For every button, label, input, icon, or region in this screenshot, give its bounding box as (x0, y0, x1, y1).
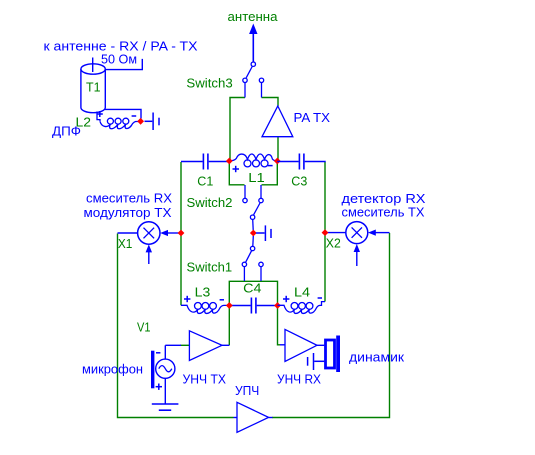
V1 plus mark (156, 384, 162, 390)
svg-text:L2: L2 (76, 114, 92, 129)
svg-text:динамик: динамик (349, 349, 404, 364)
wire T1 secondary to junction (105, 109, 141, 118)
svg-text:микрофон: микрофон (82, 361, 143, 376)
inductor L3 (181, 303, 229, 314)
node dot L3-C4 (226, 302, 233, 309)
svg-text:T1: T1 (86, 80, 101, 95)
wire 50 Ohm port to T1 (105, 59, 142, 70)
wire bottom right from УПЧ output up to X2 (272, 233, 390, 418)
node dot C4-L4 (274, 302, 281, 309)
svg-text:L3: L3 (195, 284, 211, 299)
L4 plus mark (283, 296, 289, 302)
svg-text:антенна: антенна (228, 9, 279, 24)
node dot C1-L1 (226, 158, 233, 165)
L4 minus mark (318, 297, 322, 299)
wire Switch3 right to PA TX output (262, 98, 279, 107)
wire Switch1 bottom rail with ends to L3/C4 nodes (229, 281, 277, 305)
L1 plus mark (233, 166, 240, 172)
mixer X2 (346, 222, 368, 244)
svg-text:50 Ом: 50 Ом (101, 52, 137, 67)
svg-text:L1: L1 (248, 170, 264, 185)
svg-text:C3: C3 (291, 173, 307, 188)
svg-text:модулятор TX: модулятор TX (84, 205, 172, 220)
capacitor stub near L2 (145, 113, 160, 131)
svg-text:X1: X1 (118, 236, 132, 251)
switch Switch2 (243, 185, 263, 230)
node dot switch common (250, 230, 257, 237)
inductor L1 (229, 154, 277, 167)
L1 minus mark (268, 165, 273, 167)
microphone electret plate (151, 351, 154, 389)
L2 minus mark (132, 115, 137, 117)
svg-text:X2: X2 (326, 235, 341, 250)
wire PA TX output base to L1 right node (277, 137, 279, 161)
ground below V1 (152, 404, 179, 410)
svg-text:к антенне - RX / PA - TX: к антенне - RX / PA - TX (44, 39, 198, 54)
svg-text:V1: V1 (137, 320, 151, 335)
node dot X2 (322, 229, 329, 236)
X2 LO arrow from below (354, 244, 360, 266)
wire C4 right node down to УНЧ RX input (278, 306, 286, 345)
svg-text:УПЧ: УПЧ (235, 383, 259, 398)
svg-text:смеситель TX: смеситель TX (342, 205, 425, 220)
svg-text:Switch1: Switch1 (187, 259, 233, 274)
switch Switch1 (242, 236, 263, 281)
wire L3 node down to УНЧ ТХ output (228, 306, 230, 346)
wire C3 right vertical net to L4 (324, 162, 326, 302)
capacitor C1 (181, 154, 229, 170)
capacitor stub near Switch2 (256, 225, 271, 241)
op-amp УНЧ ТХ (189, 331, 229, 361)
op-amp УНЧ RX (285, 329, 324, 361)
transformer T1 cylinder (81, 58, 105, 113)
X1 input wire from left rail (118, 232, 138, 234)
node junction dot at L2 output (137, 118, 144, 125)
V1 minus mark (156, 352, 160, 354)
capacitor C3 (277, 154, 325, 170)
svg-text:C1: C1 (197, 173, 213, 188)
svg-text:Switch2: Switch2 (187, 195, 233, 210)
wire C1 left vertical net to L3 (180, 162, 182, 305)
antenna arrow (249, 24, 257, 62)
X2 input wire from node (325, 232, 346, 234)
wire C1 node down to Switch2 left throw (229, 162, 244, 185)
svg-text:УНЧ RX: УНЧ RX (277, 371, 321, 386)
X1 LO arrow from below (146, 244, 152, 264)
node dot L1-C3 (274, 158, 281, 165)
svg-text:PA TX: PA TX (294, 110, 331, 125)
switch Switch3 (243, 62, 264, 98)
op-amp УПЧ (234, 402, 273, 432)
svg-text:УНЧ ТХ: УНЧ ТХ (183, 371, 227, 386)
L3 plus mark (184, 296, 190, 302)
wire L1 right node down to Switch2 right throw (262, 162, 278, 185)
svg-text:смеситель RX: смеситель RX (86, 190, 172, 205)
wire left rail from X1 down and bottom to УПЧ input (118, 234, 234, 418)
inductor L4 (278, 302, 326, 314)
inductor L2 (97, 112, 139, 129)
svg-text:Switch3: Switch3 (186, 76, 232, 91)
svg-text:C4: C4 (243, 280, 261, 295)
speaker динамик (326, 336, 341, 373)
wire V1 to УНЧ ТХ input green segment (180, 344, 189, 346)
L2 plus mark (97, 111, 103, 117)
X1 output arrow from node (160, 230, 181, 236)
svg-text:L4: L4 (294, 284, 310, 299)
L3 minus mark (220, 299, 224, 301)
capacitor C4 (229, 298, 277, 314)
wire Switch3 left to C1 node (230, 98, 245, 162)
mixer X1 (138, 222, 160, 244)
op-amp PA TX (262, 106, 293, 137)
capacitor stub near speaker (308, 353, 325, 370)
X2 arrow from right (368, 230, 390, 236)
node dot X1 (178, 230, 185, 237)
source V1 microphone (156, 345, 181, 403)
